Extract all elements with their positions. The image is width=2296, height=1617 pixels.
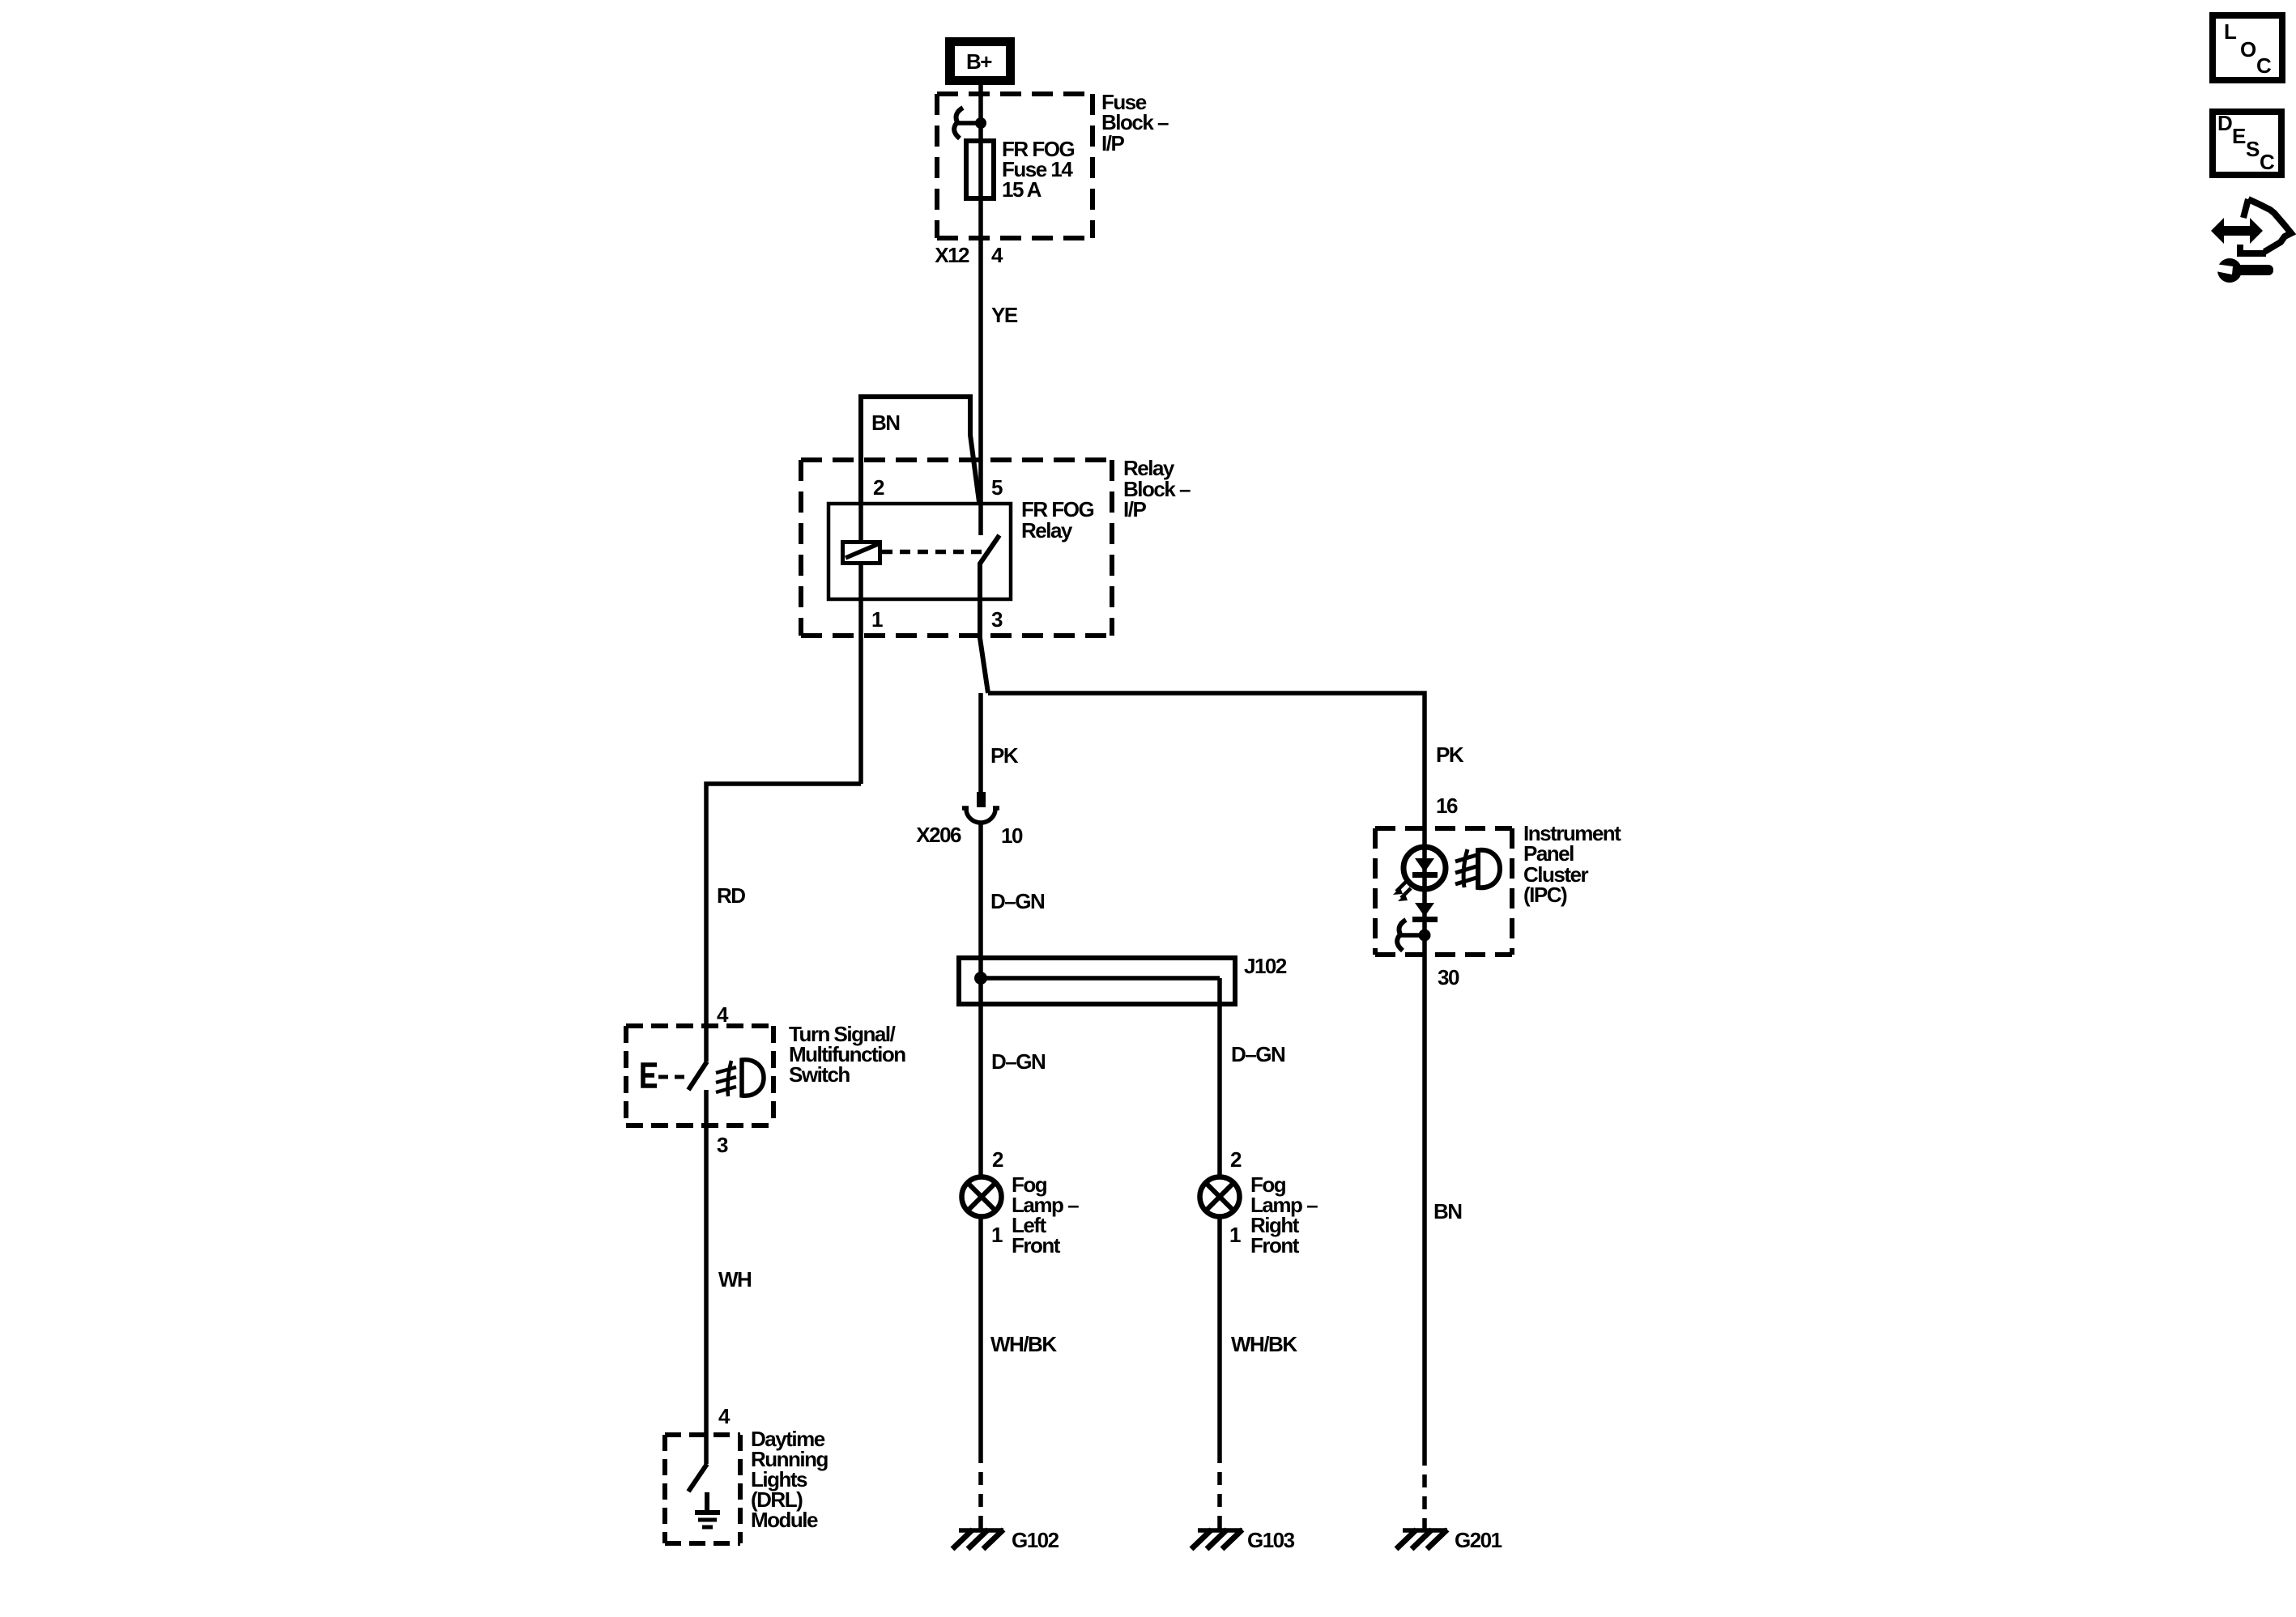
svg-text:J102: J102 [1244,954,1287,978]
svg-text:D: D [2217,111,2232,135]
dashed wire to G102 [978,1450,983,1529]
svg-text:Front: Front [1250,1233,1300,1257]
connector X206 labels [916,823,1023,848]
relay coil wire to pin 1 [858,564,863,784]
svg-text:4: 4 [718,1404,731,1428]
svg-text:C: C [2256,53,2272,78]
svg-text:10: 10 [1001,823,1023,848]
svg-text:BN: BN [871,411,900,435]
svg-text:Front: Front [1012,1233,1061,1257]
mechanical link E symbol [643,1065,686,1086]
svg-text:B+: B+ [966,49,992,74]
svg-text:D–GN: D–GN [990,889,1045,913]
svg-text:2: 2 [1230,1147,1242,1172]
svg-text:G201: G201 [1455,1528,1502,1552]
svg-text:E: E [2232,124,2246,148]
svg-text:G102: G102 [1012,1528,1059,1552]
relay switch arm and pin 3 wire [980,535,999,693]
dashed wire to G103 [1217,1450,1222,1529]
svg-text:4: 4 [991,243,1003,267]
switch arm in DRL module [688,1464,707,1491]
fog lamp icon in switch [716,1060,764,1096]
svg-text:X206: X206 [916,823,961,847]
svg-text:Module: Module [751,1508,818,1532]
LED light arrows [1393,882,1411,901]
bus bar tap hook in fuse block [954,108,977,138]
wire BN jumper loop to relay coil pin 2 [861,397,979,505]
IPC label [1523,821,1621,907]
svg-text:2: 2 [873,475,884,500]
turn signal multifunction switch dashed box [626,1026,773,1126]
wire right fog lamp to G103 (WH/BK) [1217,1217,1222,1450]
fog lamp left front label [1012,1172,1079,1257]
svg-text:1: 1 [871,607,883,632]
relay actuation dashed link [882,550,986,555]
fuse FR FOG Fuse 14 15 A [966,141,994,198]
svg-text:WH/BK: WH/BK [1231,1332,1297,1356]
DRL module dashed box [665,1435,740,1543]
fog lamp right front pin labels [1229,1147,1242,1247]
svg-text:PK: PK [1436,743,1464,767]
battery feed B+ [945,37,1015,85]
relay coil wire pin 2 [858,505,863,541]
instrument panel cluster dashed box [1375,828,1512,955]
svg-text:RD: RD [717,883,745,908]
svg-text:Switch: Switch [789,1062,850,1087]
fog lamp left front [962,1177,1002,1217]
svg-text:3: 3 [717,1133,728,1157]
wire switch to DRL module (WH) [704,1090,709,1464]
svg-text:S: S [2246,137,2260,161]
svg-text:I/P: I/P [1123,497,1146,521]
svg-text:D–GN: D–GN [1231,1042,1285,1066]
svg-text:WH: WH [718,1267,752,1291]
svg-text:Relay: Relay [1021,518,1073,543]
svg-text:YE: YE [991,303,1018,327]
svg-text:15 A: 15 A [1002,177,1042,202]
svg-text:PK: PK [990,743,1019,768]
fuse value label [1002,137,1074,202]
ground G201 [1396,1530,1447,1549]
svg-text:WH/BK: WH/BK [990,1332,1057,1356]
wire left fog lamp to G102 (WH/BK) [978,1217,983,1450]
svg-text:X12: X12 [935,243,969,267]
earth ground in DRL module [695,1492,720,1527]
bus bar hook in IPC [1397,920,1420,951]
svg-text:D–GN: D–GN [991,1049,1046,1074]
wire relay pin 3 down to X206 (PK) [978,693,983,806]
svg-text:G103: G103 [1247,1528,1295,1552]
relay label [1021,497,1093,543]
svg-text:16: 16 [1436,794,1458,818]
wire J102 to left fog lamp (D-GN) [978,978,983,1177]
splice J102 [959,958,1235,1004]
wire X206 to J102 (D-GN) [978,823,983,978]
connector X206 pin 10 [962,792,999,823]
svg-text:2: 2 [992,1147,1003,1172]
fuse block label [1101,90,1169,155]
svg-text:3: 3 [991,607,1003,632]
ground G102 [952,1530,1003,1549]
fog lamp right front [1200,1177,1240,1217]
dashed wire to G201 [1422,1453,1427,1529]
service icon: double arrow, connector outline, wrench [2211,199,2291,283]
junction dot at fuse feed [975,117,986,129]
svg-text:5: 5 [991,475,1003,500]
svg-text:BN: BN [1433,1199,1462,1223]
svg-text:1: 1 [991,1223,1003,1247]
diode in IPC [1412,903,1438,922]
svg-text:O: O [2240,37,2256,62]
svg-text:30: 30 [1438,965,1459,989]
DESC legend box [2213,111,2281,175]
fog indicator LED in IPC [1404,847,1446,889]
wire J102 to right fog lamp (D-GN) [1217,978,1222,1177]
fog lamp right front label [1250,1172,1318,1257]
svg-text:(IPC): (IPC) [1523,883,1567,907]
relay coil [843,543,880,564]
svg-text:L: L [2224,19,2237,44]
wire relay pin 3 to IPC (PK) [988,693,1425,1453]
DRL module label [751,1427,829,1532]
svg-text:1: 1 [1229,1223,1241,1247]
switch arm in turn signal switch [688,1062,707,1090]
connector X12 pin 4 labels [935,243,1003,267]
turn signal switch label [789,1022,905,1087]
fog lamp left front pin labels [991,1147,1003,1247]
ground G103 [1191,1530,1242,1549]
FR FOG relay outline box [829,504,1011,599]
wire relay pin 1 to turn signal switch (RD) [706,784,861,1062]
svg-text:I/P: I/P [1101,131,1124,155]
LOC legend box [2213,15,2282,80]
relay block label [1123,456,1191,521]
svg-text:C: C [2260,150,2275,174]
relay block I/P dashed box [801,460,1112,636]
fog lamp icon in IPC [1455,849,1500,887]
fuse block I/P dashed box [937,94,1093,238]
wire B+ to relay pin 5 (YE) [978,85,983,535]
svg-text:4: 4 [717,1002,729,1027]
junction dot in IPC [1419,930,1431,942]
